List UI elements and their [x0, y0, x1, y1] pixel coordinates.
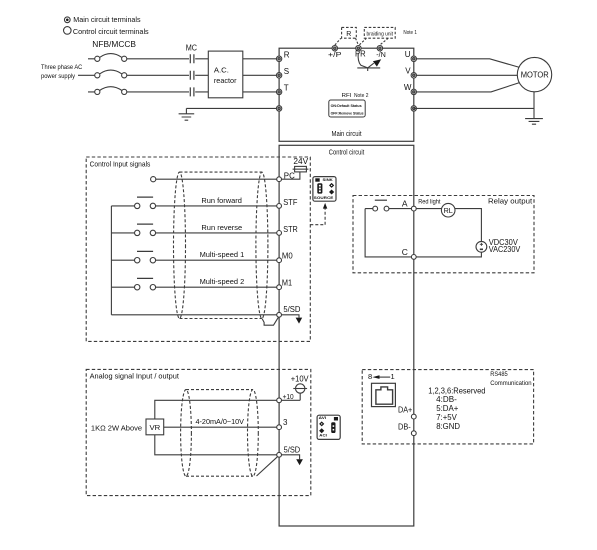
shield drain analog — [257, 456, 278, 476]
svg-text:+10: +10 — [283, 392, 294, 401]
relay switch — [373, 200, 389, 211]
relay external circuit wires — [365, 209, 481, 257]
sink source jumper block — [313, 177, 336, 202]
dashed link braking unit to -/N — [380, 38, 388, 45]
svg-text:M1: M1 — [282, 278, 292, 288]
svg-text:DB-: DB- — [398, 423, 411, 432]
wire M1 — [111, 286, 279, 288]
MC contact phase R — [190, 54, 194, 63]
svg-text:M0: M0 — [282, 251, 293, 261]
svg-text:STR: STR — [283, 224, 298, 234]
resistor R dashed box — [342, 27, 357, 38]
terminal S — [276, 73, 281, 78]
wire V to motor — [414, 74, 517, 76]
wire VR wiper to terminal 3 — [164, 426, 279, 428]
svg-text:DA+: DA+ — [398, 406, 413, 415]
switch STF — [135, 197, 156, 208]
wire W to motor — [414, 83, 520, 92]
svg-text:8: 8 — [368, 372, 372, 381]
terminal PR — [356, 46, 361, 51]
RFI jumper box — [329, 100, 365, 117]
svg-text:braiding unit: braiding unit — [367, 31, 394, 37]
analog jumper block — [317, 415, 340, 439]
svg-text:power supply: power supply — [41, 73, 76, 80]
svg-text:ON:Default Status: ON:Default Status — [331, 104, 362, 108]
terminal STF — [277, 204, 282, 209]
legend main circuit terminal symbol — [64, 17, 70, 23]
svg-text:PR: PR — [355, 50, 366, 59]
svg-text:Multi-speed 2: Multi-speed 2 — [200, 277, 245, 286]
svg-text:R: R — [346, 31, 351, 38]
wire 5/SD common — [111, 314, 276, 316]
terminal +/P — [332, 46, 337, 51]
svg-text:+/P: +/P — [328, 50, 342, 59]
24V fuse symbol — [282, 166, 309, 179]
motor M — [517, 57, 551, 91]
terminal DA+ — [411, 414, 416, 419]
svg-text:RFI: RFI — [342, 93, 352, 99]
lamp RL — [441, 203, 455, 217]
svg-text:MOTOR: MOTOR — [521, 70, 549, 80]
svg-text:NFB/MCCB: NFB/MCCB — [92, 40, 136, 49]
dashed link resistor to PR — [356, 38, 359, 45]
external contact PC — [151, 177, 156, 182]
ground symbol motor — [525, 119, 543, 125]
terminal DB- — [411, 431, 416, 436]
shield cable analog — [181, 390, 259, 477]
terminal 3 — [277, 425, 282, 430]
breaker NFB phase R — [95, 54, 127, 62]
svg-text:S: S — [284, 67, 289, 76]
MC contact phase S — [190, 71, 194, 80]
svg-text:Note 2: Note 2 — [354, 93, 369, 99]
switch M1 — [135, 278, 156, 290]
dashed arrow to sink source block — [310, 203, 327, 225]
terminal STR — [277, 231, 282, 236]
svg-text:SINK: SINK — [323, 178, 334, 182]
svg-text:Control Input signals: Control Input signals — [90, 160, 151, 169]
RS485 pin description text — [428, 386, 485, 431]
svg-text:SOURCE: SOURCE — [314, 196, 334, 200]
svg-text:8:GND: 8:GND — [436, 422, 460, 431]
wire input earth — [186, 107, 279, 109]
MC contact phase T — [190, 87, 194, 96]
terminal A — [411, 206, 416, 211]
Analog signal dashed box — [86, 369, 311, 495]
svg-text:1,2,3,6:Reserved: 1,2,3,6:Reserved — [428, 386, 485, 395]
terminal -/N — [377, 46, 382, 51]
svg-text:5/SD: 5/SD — [284, 445, 301, 454]
+10V source symbol — [293, 384, 307, 401]
svg-text:Analog signal Input / output: Analog signal Input / output — [90, 372, 179, 381]
terminal earth left — [276, 106, 281, 111]
svg-text:Multi-speed 1: Multi-speed 1 — [200, 250, 245, 259]
wire PC — [156, 178, 279, 180]
terminal T — [276, 89, 281, 94]
inverter control circuit box — [279, 145, 414, 526]
wire M0 — [111, 259, 279, 261]
dashed link PR to braking unit — [359, 38, 366, 45]
wire motor earth — [414, 92, 534, 119]
wire VR low side to 5/SD — [155, 435, 279, 455]
common bus left — [110, 206, 112, 315]
power source VDC30V/VAC230V — [476, 241, 487, 252]
legend control circuit terminal symbol — [64, 27, 72, 35]
svg-text:Control circuit terminals: Control circuit terminals — [73, 27, 149, 36]
svg-text:1KΩ 2W Above: 1KΩ 2W Above — [91, 424, 142, 433]
terminal 5/SD — [277, 312, 282, 317]
svg-text:1: 1 — [391, 372, 395, 381]
shield cable control input — [174, 172, 268, 318]
terminal 5/SD analog — [277, 452, 282, 457]
svg-text:Control circuit: Control circuit — [329, 150, 365, 157]
svg-text:Note 1: Note 1 — [403, 30, 417, 36]
terminal PC — [277, 177, 282, 182]
svg-text:Relay output: Relay output — [488, 197, 533, 206]
shield drain wire to 5/SD — [262, 317, 279, 326]
inverter main circuit box — [279, 48, 414, 141]
svg-text:C: C — [402, 247, 408, 257]
svg-text:Main circuit: Main circuit — [332, 131, 362, 138]
svg-text:VR: VR — [150, 423, 161, 432]
svg-text:4-20mA/0~10V: 4-20mA/0~10V — [196, 417, 245, 426]
AC reactor box — [208, 51, 243, 98]
svg-text:RL: RL — [444, 206, 453, 215]
svg-text:+10V: +10V — [291, 375, 310, 384]
Relay output dashed box — [353, 196, 534, 273]
svg-text:reactor: reactor — [214, 76, 237, 85]
svg-text:Run reverse: Run reverse — [201, 223, 242, 232]
svg-text:VAC230V: VAC230V — [489, 245, 521, 254]
switch STR — [135, 224, 156, 235]
svg-text:-/N: -/N — [376, 50, 386, 59]
svg-text:3: 3 — [283, 418, 288, 427]
switch M0 — [135, 251, 156, 263]
terminal R — [276, 56, 281, 61]
wire U to motor — [414, 59, 520, 68]
svg-text:PC: PC — [284, 170, 295, 180]
svg-text:V: V — [405, 66, 411, 75]
svg-text:7:+5V: 7:+5V — [436, 413, 457, 422]
terminal M1 — [277, 285, 282, 290]
ground symbol input — [179, 108, 195, 120]
svg-text:A.C.: A.C. — [214, 66, 229, 75]
svg-text:Three phase AC: Three phase AC — [41, 64, 83, 71]
svg-text:5:DA+: 5:DA+ — [436, 404, 459, 413]
svg-text:MC: MC — [186, 44, 198, 53]
terminal +10 — [277, 398, 282, 403]
svg-text:U: U — [405, 50, 411, 59]
PR to -/N jumper switch symbol — [357, 53, 381, 71]
breaker NFB phase S — [95, 70, 127, 78]
RJ45 connector — [372, 383, 396, 406]
dashed link +/P to resistor — [335, 38, 341, 45]
braking unit dashed box — [364, 27, 395, 38]
wire phase T — [88, 91, 279, 93]
breaker NFB phase T — [95, 87, 127, 95]
potentiometer VR box — [146, 419, 164, 435]
svg-text:4:DB-: 4:DB- — [436, 395, 457, 404]
svg-text:24V: 24V — [293, 157, 308, 166]
svg-text:T: T — [284, 83, 289, 92]
svg-text:OFF:Remove Status: OFF:Remove Status — [331, 112, 364, 116]
SD common down arrow — [282, 315, 303, 324]
SD analog down arrow — [282, 455, 303, 465]
wire STR — [111, 232, 279, 234]
terminal V — [411, 73, 416, 78]
svg-text:Communication: Communication — [490, 380, 532, 387]
svg-text:Run forward: Run forward — [201, 196, 242, 205]
Control input signals dashed box — [86, 157, 310, 341]
svg-text:W: W — [404, 83, 412, 92]
terminal W — [411, 89, 416, 94]
svg-text:Red light: Red light — [418, 198, 440, 205]
terminal M0 — [277, 258, 282, 263]
svg-text:R: R — [284, 50, 290, 59]
svg-text:5/SD: 5/SD — [283, 305, 300, 314]
wire STF — [111, 205, 279, 207]
terminal earth right — [411, 106, 416, 111]
RS485 dashed box — [362, 370, 533, 444]
wire phase S — [78, 74, 279, 76]
svg-text:RS485: RS485 — [490, 371, 508, 378]
wire phase R — [88, 58, 279, 60]
svg-text:ACI: ACI — [319, 433, 327, 437]
svg-text:A: A — [402, 199, 408, 209]
terminal U — [411, 56, 416, 61]
label 8 arrow 1 — [368, 372, 395, 381]
svg-text:Main circuit terminals: Main circuit terminals — [73, 15, 141, 24]
wire +10 — [155, 400, 300, 419]
svg-text:STF: STF — [283, 197, 297, 207]
svg-text:AVI: AVI — [319, 416, 327, 420]
terminal C — [411, 255, 416, 260]
